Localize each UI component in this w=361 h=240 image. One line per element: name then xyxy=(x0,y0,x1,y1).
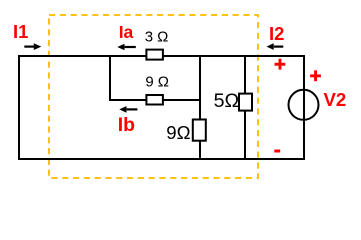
wire: top net (node top rail) xyxy=(18,55,305,57)
plus sign of source V2 xyxy=(310,70,321,81)
minus sign of port (bottom) xyxy=(274,150,280,153)
wire: drop from top rail to node A xyxy=(109,55,111,101)
arrow Ia (points left) xyxy=(117,44,136,51)
svg-text:5Ω: 5Ω xyxy=(214,90,240,112)
svg-text:I2: I2 xyxy=(269,23,284,44)
dashed boundary box (network port outline) xyxy=(49,15,258,178)
svg-text:3Ω: 3Ω xyxy=(145,28,173,45)
resistor R1 3ohm (on top rail) xyxy=(146,50,163,60)
wire: left branch vertical xyxy=(18,55,20,160)
svg-text:Ia: Ia xyxy=(119,22,134,42)
arrow I2 (points left) xyxy=(267,43,284,50)
svg-text:V2: V2 xyxy=(324,89,347,110)
plus sign of port (top) xyxy=(275,59,286,70)
resistor R3 9ohm (vertical branch) xyxy=(193,120,206,141)
wire: right branch vertical through V2 xyxy=(303,55,305,160)
wire: 5-ohm branch vertical at x=245 xyxy=(244,55,246,160)
arrow I1 (points right) xyxy=(24,43,41,50)
resistor R4 5ohm (vertical branch) xyxy=(239,94,252,111)
voltage source V2 circle xyxy=(289,90,319,120)
wire: middle branch vertical at x=200 xyxy=(199,55,201,160)
arrow Ib (points left) xyxy=(119,106,137,113)
svg-text:I1: I1 xyxy=(13,21,28,42)
wire: middle horizontal net node A to node B xyxy=(109,99,200,101)
wire: bottom net (node bottom rail) xyxy=(18,158,305,160)
svg-text:9Ω: 9Ω xyxy=(166,122,190,143)
svg-text:9Ω: 9Ω xyxy=(145,73,173,90)
svg-text:Ib: Ib xyxy=(118,114,135,136)
resistor R2 9ohm (horizontal, middle net) xyxy=(146,95,163,105)
